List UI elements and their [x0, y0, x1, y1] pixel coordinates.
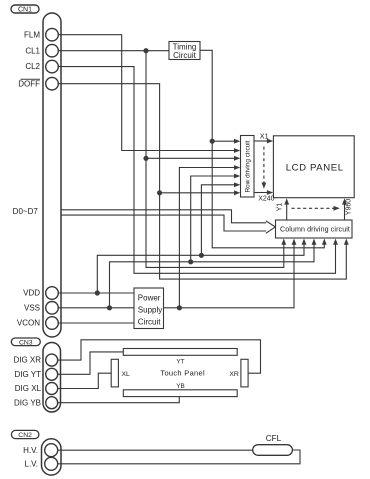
- dashed scan arrow Y1 to Y960: [292, 207, 334, 209]
- wire timing output: [200, 50, 212, 141]
- svg-text:VSS: VSS: [24, 304, 40, 313]
- connector CN2 body: [42, 439, 62, 475]
- svg-text:D0~D7: D0~D7: [13, 207, 39, 216]
- arrow column input 7: [344, 239, 349, 245]
- svg-text:CN1: CN1: [18, 7, 32, 14]
- pin L.V.: [45, 457, 58, 470]
- connector CN1 body: [43, 13, 61, 337]
- svg-text:DIG XL: DIG XL: [15, 384, 42, 393]
- pin FLM: [46, 28, 59, 41]
- wire CL1 to row driver input 3: [146, 157, 235, 159]
- arrow dashed X down: [262, 183, 267, 189]
- svg-text:LCD PANEL: LCD PANEL: [286, 162, 344, 173]
- touch panel XR bar: [241, 359, 248, 387]
- arrow X240 into LCD: [267, 190, 273, 195]
- pin DIG XL: [46, 383, 58, 395]
- wire CL1 branch down: [145, 51, 147, 159]
- node VSS branch junction: [107, 305, 112, 310]
- column driving circuit box: [276, 220, 353, 238]
- svg-text:X1: X1: [260, 131, 269, 140]
- arrow into row input 2: [234, 148, 240, 153]
- svg-text:Y960: Y960: [346, 199, 353, 215]
- svg-text:DOFF: DOFF: [18, 79, 40, 88]
- svg-text:Supply: Supply: [138, 305, 162, 314]
- wire VSS branch up and to column input 4: [110, 243, 315, 308]
- wire Y1 column to LCD: [286, 204, 288, 220]
- wire timing to row driver input 1: [212, 140, 235, 142]
- LCD panel box: [273, 136, 354, 198]
- arrow X1 into LCD: [267, 139, 273, 144]
- wire VSS to power supply: [58, 307, 134, 309]
- arrow into row input 7: [234, 190, 240, 195]
- wire DIG XL to XL bar: [58, 373, 111, 388]
- wire Y960 column to LCD: [344, 204, 346, 220]
- wire DIG XR to XR bar: [58, 340, 261, 373]
- wire VDD branch up and to column input 3: [97, 243, 304, 293]
- touch panel YB bar: [123, 390, 237, 397]
- svg-text:Touch Panel: Touch Panel: [160, 368, 205, 377]
- svg-text:Column driving circuit: Column driving circuit: [280, 225, 350, 233]
- wire riser VSS to row driver input 6: [191, 176, 235, 262]
- wire power supply output to column input 2: [164, 243, 295, 308]
- svg-text:CFL: CFL: [266, 434, 282, 443]
- pin VDD: [46, 287, 59, 300]
- connector CN3 label: [11, 338, 40, 346]
- pin CL2: [46, 60, 59, 73]
- svg-text:H.V.: H.V.: [23, 446, 38, 455]
- wire CL1 to timing circuit: [58, 50, 169, 52]
- arrowheads: [234, 139, 349, 245]
- node power riser junction: [177, 305, 182, 310]
- svg-text:VDD: VDD: [23, 289, 40, 298]
- arrow column input 6: [333, 239, 338, 245]
- pin DIG YB: [46, 397, 58, 409]
- arrow column input 5: [322, 239, 327, 245]
- wire X240 row to LCD: [254, 192, 268, 194]
- connector CN3 body: [43, 343, 61, 413]
- svg-text:L.V.: L.V.: [25, 460, 39, 469]
- bus D0-D7 upper line: [61, 210, 266, 223]
- row driving circuit box: [241, 136, 255, 198]
- svg-text:XR: XR: [229, 371, 239, 378]
- arrow into row input 1: [234, 139, 240, 144]
- dashed scan arrow X1 to X240: [263, 147, 265, 183]
- bus arrowhead into column driver: [266, 221, 275, 233]
- arrow into row input 4: [234, 165, 240, 170]
- wire timing down to column input 1: [212, 141, 324, 248]
- wire riser power to row driver input 5: [179, 168, 234, 308]
- wire CL2 down to column feed: [58, 67, 335, 274]
- node VSS riser junction: [188, 259, 193, 264]
- svg-text:DIG YT: DIG YT: [14, 370, 41, 379]
- wire VCON to power supply: [58, 322, 134, 324]
- svg-text:Circuit: Circuit: [173, 51, 196, 60]
- node DOFF-row junction: [157, 190, 162, 195]
- arrow Y1 into LCD: [284, 198, 289, 204]
- pin DIG XR: [46, 354, 58, 366]
- wire CL1 down to column feed: [146, 158, 284, 267]
- pin H.V.: [45, 444, 58, 457]
- node CL1-row junction: [143, 156, 148, 161]
- arrow column input 2: [292, 239, 297, 245]
- arrow into row input 3: [234, 156, 240, 161]
- svg-text:YT: YT: [176, 359, 184, 366]
- timing circuit box U-timing: [169, 42, 200, 60]
- wire DOFF to row driver input 8: [58, 84, 235, 193]
- node CL1-timing junction: [143, 48, 148, 53]
- svg-text:FLM: FLM: [24, 30, 40, 39]
- svg-text:VCON: VCON: [17, 319, 40, 328]
- svg-text:DIG XR: DIG XR: [13, 356, 41, 365]
- pin DOFF: [46, 77, 59, 90]
- svg-text:Circuit: Circuit: [138, 317, 161, 326]
- connector CN1 label: [11, 5, 39, 13]
- arrow Y960 into LCD: [342, 198, 347, 204]
- wire DIG YT to YT bar: [58, 352, 123, 374]
- wire DIG YB to YB bar: [58, 397, 179, 403]
- svg-text:X240: X240: [258, 195, 274, 202]
- touch panel YT bar: [123, 349, 237, 356]
- wire X1 row to LCD: [254, 140, 268, 142]
- svg-text:CL2: CL2: [25, 62, 40, 71]
- power supply circuit box: [134, 288, 164, 329]
- pin VCON: [46, 317, 59, 330]
- svg-text:CN2: CN2: [18, 432, 32, 439]
- node VDD branch junction: [95, 290, 100, 295]
- svg-text:YB: YB: [176, 383, 185, 390]
- arrow column input 4: [312, 239, 317, 245]
- svg-text:CL1: CL1: [25, 46, 40, 55]
- svg-text:Y1: Y1: [277, 203, 284, 212]
- node VDD riser junction: [199, 253, 204, 258]
- wire H.V. to CFL: [58, 449, 253, 451]
- arrow into row input 5: [234, 174, 240, 179]
- connector CN2 label: [11, 430, 39, 438]
- pin DIG YT: [46, 368, 58, 380]
- bus D0-D7 lower line: [61, 215, 266, 231]
- node timing-row junction: [210, 139, 215, 144]
- wire riser VDD to row driver input 7: [201, 185, 234, 256]
- svg-text:XL: XL: [122, 371, 131, 378]
- svg-text:CN3: CN3: [19, 339, 33, 346]
- pin VSS: [46, 302, 59, 315]
- wire L.V. to CFL: [58, 450, 301, 464]
- arrow column input 1: [281, 239, 286, 245]
- CFL lamp: [253, 445, 293, 456]
- svg-text:DIG YB: DIG YB: [14, 398, 41, 407]
- wire VDD to power supply: [58, 292, 134, 294]
- svg-text:Row driving circuit: Row driving circuit: [245, 140, 252, 192]
- pin CL1: [46, 44, 59, 57]
- arrow dashed Y right: [334, 206, 340, 211]
- wire DOFF down to column feed: [160, 193, 347, 279]
- arrow into row input 6: [234, 182, 240, 187]
- touch panel XL bar: [111, 359, 118, 387]
- arrow column input 3: [302, 239, 307, 245]
- junction dots: [95, 48, 215, 310]
- wire FLM to row driver input 2: [58, 35, 235, 151]
- svg-text:Power: Power: [138, 293, 161, 302]
